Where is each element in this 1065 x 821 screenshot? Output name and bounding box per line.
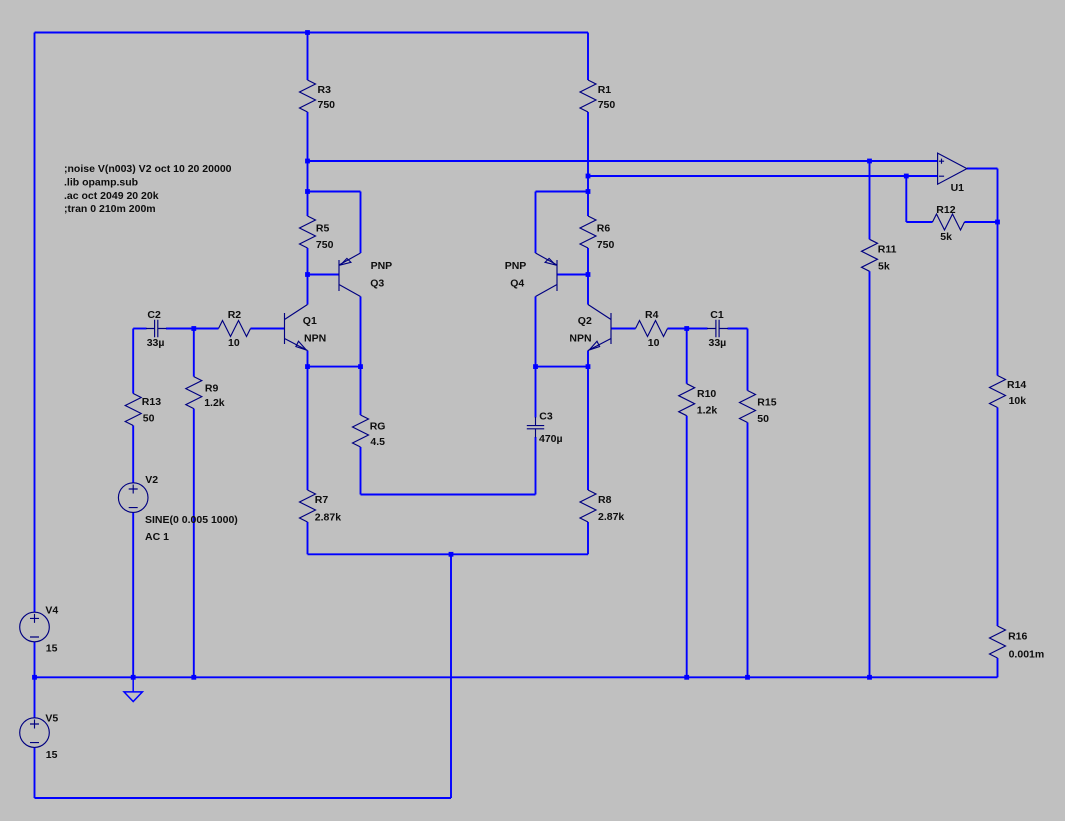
- svg-text:PNP: PNP: [371, 260, 393, 272]
- svg-text:5k: 5k: [878, 261, 890, 273]
- transistor Q1: [285, 305, 308, 351]
- wire V4 bottom to mid rail: [34, 642, 36, 678]
- resistor R2: [219, 321, 251, 337]
- wire left edge (V+ column): [34, 33, 36, 613]
- svg-text:4.5: 4.5: [370, 436, 385, 448]
- wire R11 top lead: [869, 161, 871, 239]
- svg-text:5k: 5k: [940, 231, 952, 243]
- junction: [305, 189, 310, 194]
- wire R8 bottom: [587, 522, 589, 554]
- wire inverting node down: [905, 176, 907, 222]
- junction: [586, 174, 591, 179]
- svg-text:15: 15: [46, 642, 58, 654]
- svg-text:2.87k: 2.87k: [598, 511, 624, 523]
- svg-text:R10: R10: [697, 388, 716, 400]
- wire node to R7 top: [307, 367, 309, 490]
- svg-text:750: 750: [598, 99, 616, 111]
- svg-text:.ac oct 2049 20 20k: .ac oct 2049 20 20k: [64, 190, 159, 202]
- svg-text:NPN: NPN: [304, 333, 326, 345]
- junction: [867, 675, 872, 680]
- svg-text:750: 750: [597, 239, 615, 251]
- wire C2 corner down to R13: [132, 329, 134, 394]
- svg-text:R4: R4: [645, 309, 659, 321]
- wire C3 top lead: [535, 367, 537, 418]
- junction: [586, 272, 591, 277]
- svg-text:R9: R9: [205, 382, 219, 394]
- svg-text:R11: R11: [878, 244, 897, 256]
- resistor R4: [636, 321, 668, 337]
- svg-text:0.001m: 0.001m: [1009, 648, 1045, 660]
- wire R14 bottom to R16 top: [997, 408, 999, 627]
- voltage source V5: [20, 718, 50, 748]
- wire R3 bottom to R5 top: [307, 112, 309, 216]
- resistor R3: [300, 80, 316, 112]
- wire Q3 emitter lead: [360, 192, 362, 254]
- resistor R8: [580, 490, 596, 522]
- svg-text:AC 1: AC 1: [145, 531, 169, 543]
- svg-text:.lib opamp.sub: .lib opamp.sub: [64, 176, 138, 188]
- junction: [449, 552, 454, 557]
- capacitor C1: [716, 320, 719, 337]
- svg-text:10: 10: [648, 337, 660, 349]
- resistor R1: [580, 80, 596, 112]
- wire R16 bottom to mid rail: [997, 658, 999, 677]
- transistor Q2: [588, 305, 611, 351]
- svg-text:R8: R8: [598, 494, 612, 506]
- wire Q4 base link: [557, 274, 588, 276]
- capacitor C3: [527, 426, 544, 429]
- resistor R11: [862, 239, 878, 271]
- svg-text:10k: 10k: [1009, 395, 1027, 407]
- junction: [867, 159, 872, 164]
- svg-text:Q4: Q4: [510, 278, 524, 290]
- capacitor C2: [155, 320, 158, 337]
- svg-text:;tran 0 210m 200m: ;tran 0 210m 200m: [64, 203, 156, 215]
- junction: [32, 675, 37, 680]
- svg-text:C1: C1: [710, 309, 724, 321]
- wire R1 top lead: [587, 33, 589, 81]
- svg-text:10: 10: [228, 337, 240, 349]
- svg-text:R12: R12: [936, 204, 955, 216]
- resistor R7: [300, 490, 316, 522]
- wire inverting rail y=176: [588, 175, 938, 177]
- ground: [124, 677, 142, 701]
- wire V2 bottom to mid rail: [132, 512, 134, 677]
- svg-text:33µ: 33µ: [709, 337, 727, 349]
- resistor RG: [353, 415, 369, 447]
- wire R13 bottom to V2 top: [132, 426, 134, 484]
- wire riser x=451: [450, 554, 452, 798]
- junction: [586, 189, 591, 194]
- wire R6 bottom to Q2 collector: [587, 248, 589, 305]
- svg-text:R5: R5: [316, 223, 330, 235]
- wire R5 bottom to Q1 collector: [307, 248, 309, 305]
- junction: [586, 364, 591, 369]
- svg-text:Q1: Q1: [303, 315, 317, 327]
- wire R12 right to output column: [965, 221, 998, 223]
- svg-text:U1: U1: [951, 182, 965, 194]
- junction: [131, 675, 136, 680]
- svg-text:V5: V5: [45, 712, 58, 724]
- svg-text:R16: R16: [1008, 631, 1027, 643]
- svg-text:NPN: NPN: [569, 333, 591, 345]
- junction: [995, 220, 1000, 225]
- svg-text:R1: R1: [598, 84, 612, 96]
- wire gain row y=494: [361, 494, 536, 496]
- op-amp U1: [938, 153, 967, 184]
- svg-text:Q2: Q2: [578, 315, 592, 327]
- wire R4 to C1 node: [668, 328, 708, 330]
- wire Q2 emitter to node: [587, 351, 589, 367]
- wire Q3 emitter link: [308, 191, 361, 193]
- voltage source V4: [20, 612, 50, 642]
- svg-text:R3: R3: [318, 84, 332, 96]
- svg-text:R6: R6: [597, 223, 611, 235]
- svg-text:750: 750: [318, 99, 336, 111]
- junction: [533, 364, 538, 369]
- resistor R6: [580, 216, 596, 248]
- svg-text:1.2k: 1.2k: [697, 404, 718, 416]
- wire R11 bottom to mid rail: [869, 271, 871, 677]
- wire Q4 emitter link: [536, 191, 589, 193]
- wire R9 top lead: [193, 329, 195, 377]
- wire top rail: [35, 32, 589, 34]
- svg-text:V4: V4: [45, 604, 58, 616]
- wire R9 bottom to mid rail: [193, 409, 195, 678]
- svg-text:1.2k: 1.2k: [204, 397, 225, 409]
- resistor R5: [300, 216, 316, 248]
- wire R1 bottom to R6 top: [587, 112, 589, 216]
- wire Q3 base link: [308, 274, 340, 276]
- svg-text:R13: R13: [142, 396, 161, 408]
- wire emitter-resistor row y=554: [308, 553, 589, 555]
- wire node to R10 top: [686, 329, 688, 384]
- svg-text:PNP: PNP: [505, 260, 527, 272]
- svg-text:50: 50: [757, 413, 769, 425]
- resistor R10: [679, 384, 695, 416]
- wire output column to R14: [997, 169, 999, 376]
- wire node to R8 top: [587, 367, 589, 490]
- junction: [191, 326, 196, 331]
- junction: [305, 272, 310, 277]
- resistor R15: [740, 391, 756, 423]
- svg-text:SINE(0 0.005 1000): SINE(0 0.005 1000): [145, 514, 238, 526]
- svg-text:R7: R7: [315, 494, 329, 506]
- wire R7 bottom: [307, 522, 309, 554]
- wire R15 bottom to mid rail: [747, 423, 749, 678]
- junction: [305, 159, 310, 164]
- wire C3 bottom lead: [535, 437, 537, 495]
- svg-text:470µ: 470µ: [539, 433, 563, 445]
- voltage source V2: [118, 483, 148, 513]
- resistor R12: [933, 214, 965, 230]
- svg-text:750: 750: [316, 239, 334, 251]
- svg-text:33µ: 33µ: [147, 337, 165, 349]
- svg-text:R15: R15: [757, 397, 776, 409]
- junction: [305, 30, 310, 35]
- junction: [191, 675, 196, 680]
- wire mid rail to V5 top: [34, 677, 36, 718]
- wire C1 right lead: [728, 328, 748, 330]
- svg-text:RG: RG: [370, 420, 386, 432]
- wire R2 to Q1 base: [251, 328, 285, 330]
- resistor R16: [990, 626, 1006, 658]
- wire C2 left lead: [133, 328, 146, 330]
- svg-text:Q3: Q3: [370, 278, 384, 290]
- svg-text:R2: R2: [228, 309, 242, 321]
- wire C2 right to R2: [166, 328, 219, 330]
- svg-text:15: 15: [46, 749, 58, 761]
- resistor R14: [990, 376, 1006, 408]
- junction: [904, 174, 909, 179]
- wire Q3 collector lead: [360, 297, 362, 367]
- wire mid (ground) rail: [35, 676, 998, 678]
- svg-text:2.87k: 2.87k: [315, 512, 341, 524]
- wire C1 corner down to R15: [747, 329, 749, 391]
- wire Q4 emitter lead: [535, 192, 537, 254]
- junction: [684, 675, 689, 680]
- junction: [358, 364, 363, 369]
- svg-text:V2: V2: [145, 474, 158, 486]
- junction: [305, 364, 310, 369]
- svg-text:R14: R14: [1007, 379, 1026, 391]
- wire Q1 emitter to node: [307, 351, 309, 367]
- transistor Q3: [339, 253, 361, 297]
- wire emitter node row left: [308, 366, 361, 368]
- wire noninverting rail y=161: [308, 160, 938, 162]
- wire Q4 collector lead: [535, 297, 537, 367]
- wire node to RG top: [360, 367, 362, 415]
- junction: [745, 675, 750, 680]
- wire Q2 base to R4: [611, 328, 636, 330]
- junction: [684, 326, 689, 331]
- svg-text:;noise V(n003) V2 oct 10 20 20: ;noise V(n003) V2 oct 10 20 20000: [64, 163, 232, 175]
- wire bottom rail: [35, 797, 452, 799]
- wire to R12 left: [906, 221, 932, 223]
- resistor R9: [186, 377, 202, 409]
- wire V5 bottom to bottom rail: [34, 747, 36, 798]
- transistor Q4: [536, 253, 558, 297]
- svg-text:50: 50: [143, 413, 155, 425]
- svg-text:C3: C3: [539, 410, 553, 422]
- resistor R13: [125, 394, 141, 426]
- wire RG bottom: [360, 447, 362, 495]
- wire R3 top lead: [307, 33, 309, 81]
- wire emitter node row right: [536, 366, 589, 368]
- wire R10 bottom to mid rail: [686, 416, 688, 678]
- svg-text:C2: C2: [147, 309, 161, 321]
- wire op-amp output: [967, 168, 998, 170]
